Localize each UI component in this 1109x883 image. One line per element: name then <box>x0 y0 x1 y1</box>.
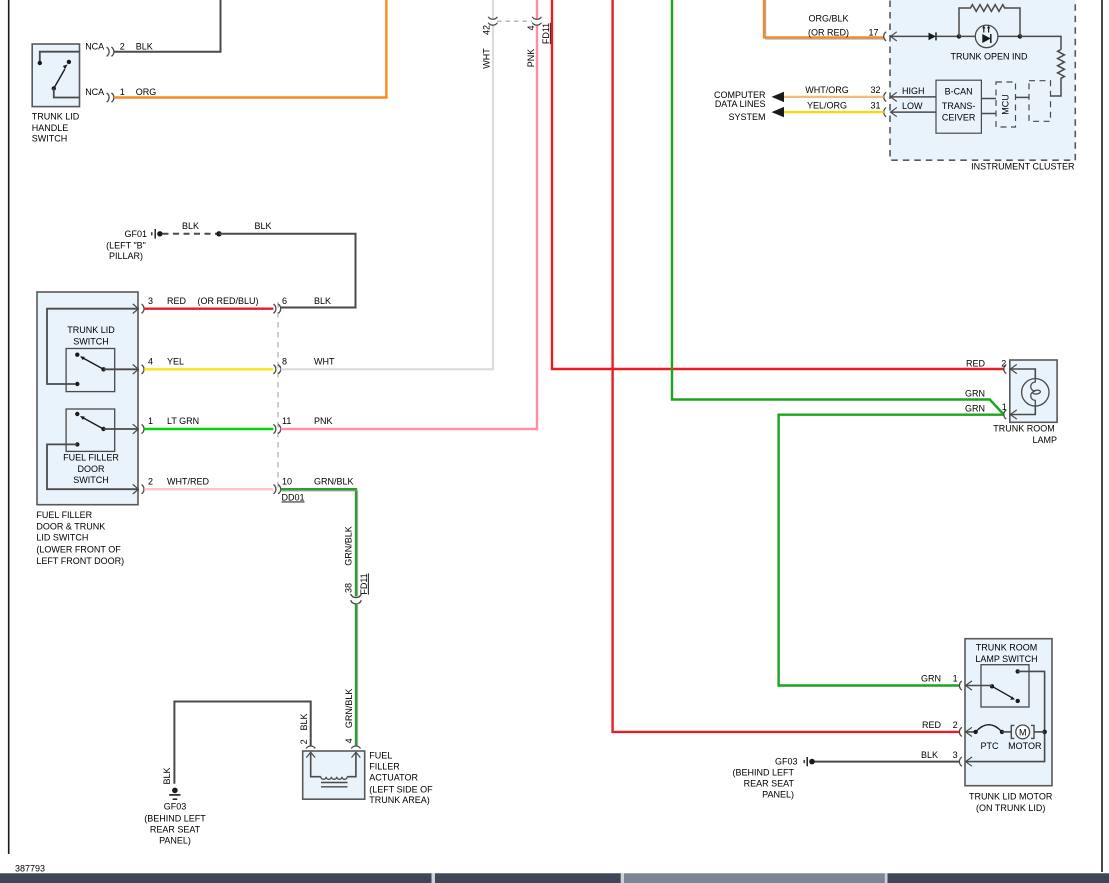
wire GRN vertical to trunk room lamp pin 1 <box>672 0 1004 415</box>
wire from LED junction to resistor R2 <box>1020 36 1061 49</box>
svg-text:32: 32 <box>870 85 880 95</box>
page left border <box>8 0 10 854</box>
wire inside cluster from pin 17 <box>891 35 929 37</box>
PTC thermistor <box>966 731 976 733</box>
wire WHT/RED from pin 2 <box>144 488 273 490</box>
svg-text:FILLER: FILLER <box>369 762 400 772</box>
connector pin 8 <box>273 356 335 374</box>
svg-text:LID SWITCH: LID SWITCH <box>36 533 88 543</box>
svg-text:FUEL FILLER: FUEL FILLER <box>63 453 119 463</box>
motor unit TRUNK LID MOTOR box <box>965 639 1052 786</box>
svg-text:LT GRN: LT GRN <box>167 416 199 426</box>
label of switch assembly <box>36 510 124 566</box>
motor pin 3 connector <box>921 750 972 766</box>
wire WHT stub at top edge <box>492 0 494 19</box>
svg-text:SWITCH: SWITCH <box>32 133 68 143</box>
connector pin 6 <box>273 296 331 314</box>
svg-text:WHT: WHT <box>481 48 491 69</box>
svg-text:GRN: GRN <box>921 674 941 684</box>
node COMPUTER DATA LINES SYSTEM <box>714 85 881 122</box>
svg-text:8: 8 <box>282 356 287 366</box>
inline connector pin 42 on WHT wire <box>481 17 497 69</box>
wire PNK stub at top edge <box>536 0 538 19</box>
pin 2 of S1 (NCA) <box>85 41 153 56</box>
cluster pin 17 connector <box>884 32 897 41</box>
svg-text:1: 1 <box>953 674 958 684</box>
svg-text:(ON TRUNK LID): (ON TRUNK LID) <box>976 803 1045 813</box>
svg-text:2: 2 <box>148 476 153 486</box>
svg-text:31: 31 <box>870 101 880 111</box>
svg-text:FUEL: FUEL <box>369 751 392 761</box>
svg-text:4: 4 <box>526 25 536 30</box>
svg-text:387793: 387793 <box>15 864 45 874</box>
lamp TRUNK ROOM LAMP <box>993 360 1057 445</box>
svg-text:2: 2 <box>120 41 125 51</box>
wire WHT/ORG to computer data lines <box>784 96 884 98</box>
svg-text:(LEFT "B": (LEFT "B" <box>106 241 146 251</box>
svg-text:BLK: BLK <box>162 767 172 784</box>
wire RED vertical to trunk room lamp pin 2 <box>552 0 1004 369</box>
svg-text:3: 3 <box>953 750 958 760</box>
svg-text:TRUNK ROOM: TRUNK ROOM <box>993 424 1055 434</box>
svg-text:4: 4 <box>344 738 354 743</box>
svg-text:ORG/BLK: ORG/BLK <box>808 13 848 23</box>
svg-text:3: 3 <box>148 296 153 306</box>
LED TRUNK OPEN IND <box>950 25 1028 61</box>
switch assembly FUEL FILLER DOOR & TRUNK LID SWITCH <box>37 292 138 505</box>
arrow to computer data lines (LOW) <box>772 107 785 117</box>
svg-text:LAMP SWITCH: LAMP SWITCH <box>975 654 1037 664</box>
svg-text:GRN/BLK: GRN/BLK <box>314 476 354 486</box>
wire to LED <box>936 35 959 37</box>
wire WHT from pin 8 up to top connector 42 <box>281 26 493 370</box>
svg-text:(LOWER FRONT OF: (LOWER FRONT OF <box>36 545 121 555</box>
svg-text:DD01: DD01 <box>282 493 305 503</box>
resistor R2 vertical <box>1058 50 1065 79</box>
svg-text:11: 11 <box>282 416 291 426</box>
svg-text:2: 2 <box>1001 358 1006 368</box>
wire BLK from actuator pin 2 to GF03 <box>174 702 310 784</box>
pin 4 arrow and connector arc <box>133 356 184 374</box>
page right border <box>1101 0 1103 872</box>
wire BLK from junction to connector pin 6 <box>219 234 356 308</box>
svg-text:SYSTEM: SYSTEM <box>728 112 765 122</box>
svg-text:BLK: BLK <box>136 41 153 51</box>
svg-text:2: 2 <box>299 739 309 744</box>
wire ORG/BLK (OR RED) into instrument cluster pin 17 <box>764 0 884 37</box>
svg-text:INSTRUMENT CLUSTER: INSTRUMENT CLUSTER <box>971 161 1075 171</box>
svg-text:GRN: GRN <box>965 388 985 398</box>
MCU dashed block <box>996 82 1016 127</box>
pin 1 arrow and connector arc <box>133 416 199 434</box>
instrument cluster U1 dashed boundary <box>890 0 1075 160</box>
svg-text:WHT/RED: WHT/RED <box>167 476 209 486</box>
motor pin 2 connector <box>922 720 972 737</box>
ground GF03 (BEHIND LEFT REAR SEAT PANEL) right <box>732 757 814 800</box>
ground GF03 (BEHIND LEFT REAR SEAT PANEL) bottom-left <box>144 788 206 846</box>
connector DD01 dashed boundary <box>277 302 279 491</box>
wire BLK dashed from GF01 to junction <box>163 233 220 235</box>
switch S1 TRUNK LID HANDLE SWITCH <box>32 44 80 143</box>
junction node <box>957 34 962 39</box>
junction node <box>1018 34 1023 39</box>
label of fuel filler actuator <box>369 751 433 806</box>
cluster pin 32 connector HIGH <box>884 86 936 102</box>
inline connector pin 4 FD11 on PNK wire <box>526 17 551 67</box>
svg-text:SWITCH: SWITCH <box>73 337 109 347</box>
svg-text:PNK: PNK <box>526 49 536 68</box>
svg-text:2: 2 <box>953 720 958 730</box>
svg-text:TRUNK LID MOTOR: TRUNK LID MOTOR <box>969 792 1053 802</box>
svg-text:(BEHIND LEFT: (BEHIND LEFT <box>144 814 206 824</box>
lamp switch S2 inside motor unit <box>981 665 1029 707</box>
svg-text:BLK: BLK <box>254 221 271 231</box>
dashed block2 <box>1029 81 1051 122</box>
svg-text:NCA: NCA <box>85 87 104 97</box>
svg-text:GRN/BLK: GRN/BLK <box>343 526 353 566</box>
actuator FUEL FILLER ACTUATOR <box>303 746 365 799</box>
dashed link between connectors 42 and 4 <box>497 20 532 22</box>
svg-text:GRN: GRN <box>965 404 985 414</box>
svg-text:DOOR & TRUNK: DOOR & TRUNK <box>36 522 105 532</box>
svg-text:RED: RED <box>922 720 942 730</box>
connector pin 11 <box>273 416 332 434</box>
svg-text:MCU: MCU <box>1000 94 1010 115</box>
wire GRN from trunk room lamp pin 1 down to lamp switch pin 1 <box>779 415 1004 686</box>
bottom scrollbar track <box>0 873 1109 883</box>
resistor R1 bypass over LED <box>959 5 1020 37</box>
ground GF01 (LEFT "B" PILLAR) <box>106 229 162 261</box>
svg-text:GF03: GF03 <box>164 801 187 811</box>
svg-text:1: 1 <box>120 87 125 97</box>
svg-text:DATA LINES: DATA LINES <box>715 99 766 109</box>
svg-text:WHT: WHT <box>314 356 335 366</box>
junction node <box>1042 730 1047 735</box>
svg-text:6: 6 <box>282 296 287 306</box>
wire PNK from pin 11 up to top connector 4 <box>281 26 537 429</box>
pin 3 arrow and connector arc <box>133 296 259 314</box>
B-CAN TRANSCEIVER block <box>936 80 981 133</box>
wire LT GRN from pin 1 <box>144 428 273 430</box>
svg-text:YEL: YEL <box>167 356 184 366</box>
svg-text:PTC: PTC <box>981 741 1000 751</box>
svg-text:GF03: GF03 <box>775 757 798 767</box>
svg-text:LEFT FRONT DOOR): LEFT FRONT DOOR) <box>36 556 124 566</box>
svg-text:(BEHIND LEFT: (BEHIND LEFT <box>732 768 794 778</box>
inline connector pin 38 FD11 on GRN/BLK wire <box>343 526 369 604</box>
wire MCU to block2 <box>1016 96 1030 98</box>
bottom bar segment 2 <box>435 873 621 883</box>
svg-text:38: 38 <box>343 583 353 593</box>
svg-text:DOOR: DOOR <box>78 464 106 474</box>
svg-text:FUEL FILLER: FUEL FILLER <box>36 510 92 520</box>
svg-text:BLK: BLK <box>182 221 199 231</box>
svg-text:PILLAR): PILLAR) <box>109 251 143 261</box>
bottom bar segment 1 <box>0 873 432 883</box>
svg-text:TRUNK ROOM: TRUNK ROOM <box>976 643 1038 653</box>
svg-text:TRUNK AREA): TRUNK AREA) <box>369 795 430 805</box>
svg-text:LAMP: LAMP <box>1032 435 1057 445</box>
svg-text:REAR SEAT: REAR SEAT <box>744 779 795 789</box>
svg-text:PANEL): PANEL) <box>159 835 191 845</box>
svg-text:SWITCH: SWITCH <box>73 475 109 485</box>
svg-text:CEIVER: CEIVER <box>942 112 976 122</box>
wires B-CAN to MCU <box>981 98 996 100</box>
svg-text:1: 1 <box>1002 402 1007 412</box>
wire BLK from S1 pin 2 to top edge <box>114 0 221 52</box>
svg-text:ORG: ORG <box>136 87 157 97</box>
connector pin 10 and DD01 label <box>273 476 353 502</box>
lamp pin 1 connector <box>965 388 1017 419</box>
svg-text:M: M <box>1019 728 1027 738</box>
svg-text:10: 10 <box>282 476 292 486</box>
svg-text:FD11: FD11 <box>359 573 369 594</box>
svg-text:FD11: FD11 <box>541 23 551 44</box>
motor M1 <box>1002 731 1011 733</box>
svg-text:BLK: BLK <box>314 296 331 306</box>
wire YEL from pin 4 <box>144 368 273 370</box>
svg-text:GRN/BLK: GRN/BLK <box>344 689 354 729</box>
wire ORG from S1 pin 1 to top edge <box>114 0 387 98</box>
wire GRN/BLK from connector 38 down to actuator pin 4 <box>355 603 357 746</box>
svg-text:MOTOR: MOTOR <box>1008 741 1042 751</box>
svg-text:42: 42 <box>481 25 491 35</box>
svg-text:B-CAN: B-CAN <box>945 87 973 97</box>
svg-text:TRANS-: TRANS- <box>942 101 976 111</box>
svg-text:PANEL): PANEL) <box>762 790 794 800</box>
svg-text:GF01: GF01 <box>124 229 147 239</box>
svg-text:TRUNK LID: TRUNK LID <box>67 325 115 335</box>
wire GRN/BLK from pin 10 down to FD11 connector <box>281 489 356 596</box>
svg-text:TRUNK LID: TRUNK LID <box>32 112 80 122</box>
svg-text:4: 4 <box>148 356 153 366</box>
lamp pin 2 connector <box>966 358 1017 373</box>
bottom bar segment 3 (light) <box>624 873 885 883</box>
svg-text:LOW: LOW <box>902 101 923 111</box>
junction node on GF01 lead <box>216 231 221 236</box>
wire RED vertical to trunk lid motor pin 2 <box>613 0 960 732</box>
svg-text:NCA: NCA <box>85 41 104 51</box>
svg-text:(OR RED): (OR RED) <box>808 27 849 37</box>
svg-text:TRUNK OPEN IND: TRUNK OPEN IND <box>950 52 1028 62</box>
svg-text:HIGH: HIGH <box>902 86 925 96</box>
svg-text:RED: RED <box>966 358 986 368</box>
pin 1 of S1 (NCA) <box>85 87 156 102</box>
diode D1 <box>929 32 937 40</box>
pin 2 arrow and connector arc <box>133 476 210 494</box>
arrow to computer data lines (HIGH) <box>772 92 785 102</box>
svg-text:BLK: BLK <box>299 713 309 730</box>
svg-text:(OR RED/BLU): (OR RED/BLU) <box>198 296 259 306</box>
svg-text:BLK: BLK <box>921 750 938 760</box>
svg-text:WHT/ORG: WHT/ORG <box>805 85 849 95</box>
bottom bar segment 4 <box>888 873 1109 883</box>
svg-text:17: 17 <box>868 27 878 37</box>
motor pin 1 connector <box>921 674 972 691</box>
svg-text:PNK: PNK <box>314 416 333 426</box>
svg-text:1: 1 <box>148 416 153 426</box>
wire from R2 into MCU block2 <box>1051 78 1062 97</box>
wire YEL/ORG to computer data lines <box>784 111 884 113</box>
wire BLK from motor pin 3 to GF03 <box>812 761 960 763</box>
wire RED from pin 3 <box>144 308 273 310</box>
svg-text:HANDLE: HANDLE <box>32 123 69 133</box>
svg-text:RED: RED <box>167 296 187 306</box>
svg-text:YEL/ORG: YEL/ORG <box>807 101 847 111</box>
svg-text:(LEFT SIDE OF: (LEFT SIDE OF <box>369 785 433 795</box>
svg-text:ACTUATOR: ACTUATOR <box>369 773 418 783</box>
svg-text:REAR SEAT: REAR SEAT <box>150 825 201 835</box>
cluster pin 31 connector LOW <box>884 101 936 117</box>
